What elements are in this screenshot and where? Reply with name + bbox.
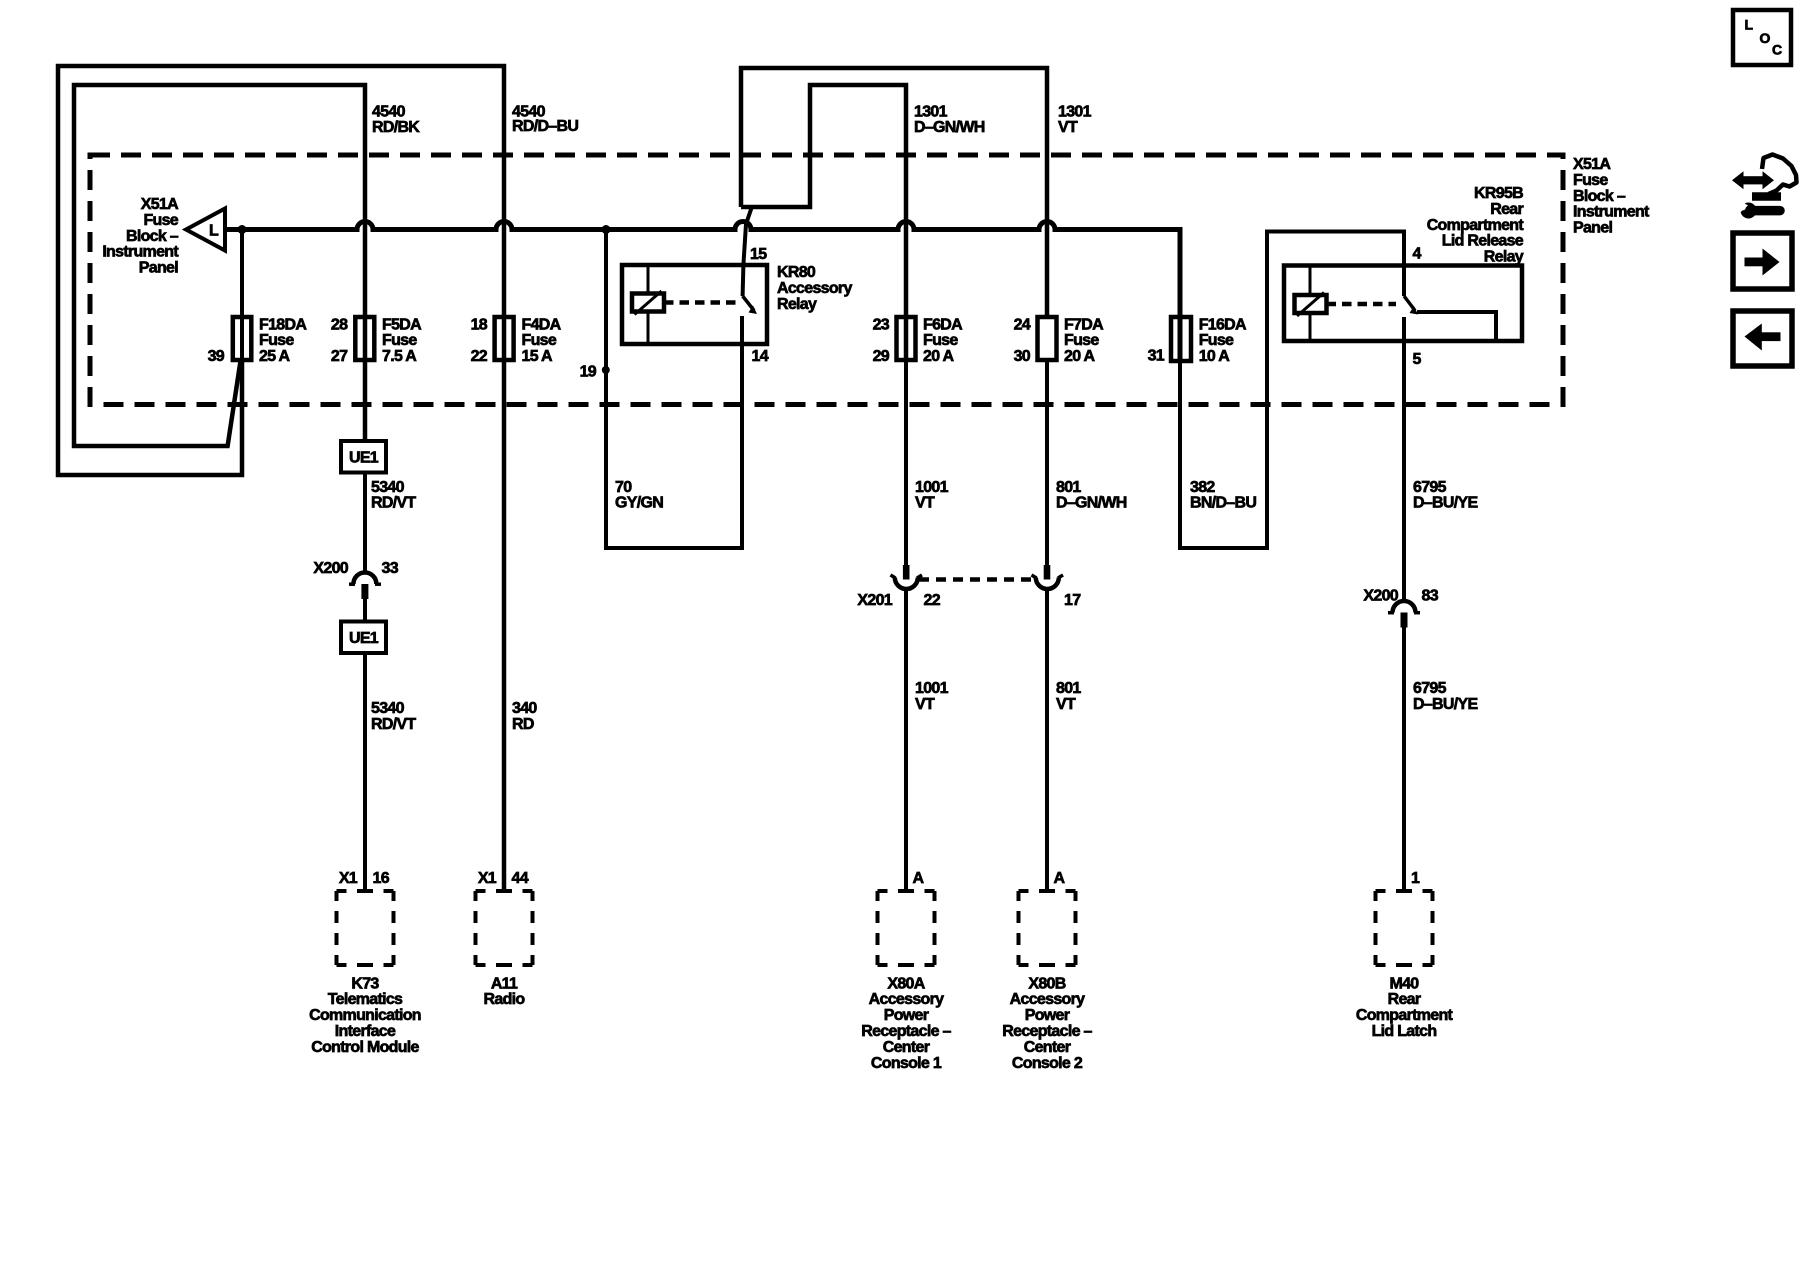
svg-text:X1: X1 [478, 870, 497, 887]
svg-text:KR95B: KR95B [1474, 185, 1523, 202]
icon LOC box [1733, 10, 1791, 65]
svg-text:15 A: 15 A [522, 348, 554, 365]
svg-text:A: A [1054, 870, 1066, 887]
svg-text:Accessory: Accessory [777, 280, 852, 297]
dashed pairing line X201 [919, 577, 1034, 582]
wire 4540 RD/BK inner loop from F18DA pin39 to F5DA [74, 85, 365, 446]
svg-text:L: L [209, 223, 219, 240]
relay KR95B contact to pin 5 [1417, 312, 1496, 341]
svg-text:Center: Center [883, 1039, 930, 1056]
svg-text:28: 28 [331, 316, 348, 333]
svg-text:Fuse: Fuse [143, 212, 178, 229]
svg-text:Compartment: Compartment [1427, 217, 1525, 234]
svg-text:Power: Power [884, 1007, 929, 1024]
label wire 801 VT lower [1056, 680, 1081, 713]
label wire 382 BN/D-BU [1190, 479, 1256, 512]
wire 1301 VT loop from F7DA up and over to KR80 pin 15 junction [741, 68, 1047, 317]
relay KR80 coil pin line [647, 265, 650, 344]
label fuse F7DA [1064, 316, 1104, 365]
label wire 5340 RD/VT upper [371, 479, 416, 512]
svg-text:7.5 A: 7.5 A [382, 348, 417, 365]
fuse F5DA [355, 317, 374, 360]
svg-text:Relay: Relay [1484, 249, 1524, 266]
relay KR95B switch blade [1404, 296, 1418, 315]
svg-text:A: A [913, 870, 925, 887]
svg-text:O: O [1760, 30, 1771, 46]
svg-text:VT: VT [1056, 696, 1076, 713]
wire 6795 D-BU/YE X200 to M40 [1402, 628, 1406, 893]
label wire 1301 VT [1058, 103, 1092, 136]
svg-text:Block –: Block – [126, 228, 179, 245]
svg-text:83: 83 [1422, 587, 1439, 604]
svg-text:Compartment: Compartment [1356, 1007, 1454, 1024]
svg-text:25 A: 25 A [259, 348, 291, 365]
svg-text:Fuse: Fuse [923, 332, 958, 349]
svg-text:33: 33 [382, 560, 399, 577]
svg-text:Receptacle –: Receptacle – [1002, 1023, 1092, 1040]
svg-text:24: 24 [1014, 316, 1031, 333]
fuse F6DA [897, 317, 916, 360]
label wire 1301 D-GN/WH [914, 103, 985, 136]
connector box A11 [476, 891, 533, 965]
svg-text:39: 39 [208, 348, 225, 365]
wire 70 GY/GN from node 19 to KR80 pin 14 [606, 230, 742, 549]
relay KR80 coil [632, 291, 664, 315]
svg-text:UE1: UE1 [349, 450, 379, 467]
label wire 801 D-GN/WH [1056, 479, 1127, 512]
node 19 dot [602, 366, 610, 374]
svg-text:Lid Release: Lid Release [1442, 233, 1524, 250]
svg-text:Instrument: Instrument [102, 244, 179, 261]
svg-text:RD/VT: RD/VT [371, 716, 416, 733]
svg-text:X80A: X80A [887, 975, 925, 992]
svg-text:F4DA: F4DA [522, 316, 562, 333]
wire 1001 VT X201 to X80A [904, 591, 908, 892]
svg-text:Communication: Communication [309, 1007, 421, 1024]
label fuse F18DA [259, 316, 307, 365]
svg-text:Console 1: Console 1 [871, 1055, 942, 1072]
svg-text:Panel: Panel [139, 260, 178, 277]
svg-text:382: 382 [1190, 479, 1215, 496]
icon forward arrow box [1733, 233, 1792, 289]
label KR80 relay [777, 264, 852, 313]
junction dot at node 19 branch [602, 225, 611, 234]
label fuse F5DA [382, 316, 422, 365]
wire UE1 to X200 pin 33 [363, 473, 367, 573]
svg-text:Fuse: Fuse [1199, 332, 1234, 349]
label fuse F4DA [522, 316, 562, 365]
icon back arrow box [1733, 311, 1792, 366]
svg-text:1001: 1001 [915, 680, 949, 697]
label wire 6795 D-BU/YE lower [1413, 680, 1478, 713]
svg-text:X200: X200 [313, 560, 348, 577]
svg-text:Accessory: Accessory [869, 991, 944, 1008]
fuse F4DA [495, 317, 514, 360]
svg-text:Fuse: Fuse [259, 332, 294, 349]
svg-text:6795: 6795 [1413, 680, 1447, 697]
svg-text:10 A: 10 A [1199, 348, 1231, 365]
svg-text:D–BU/YE: D–BU/YE [1413, 495, 1478, 512]
svg-text:16: 16 [373, 870, 390, 887]
svg-text:15: 15 [750, 246, 767, 263]
svg-text:F16DA: F16DA [1199, 316, 1247, 333]
relay KR80 box [622, 265, 767, 344]
svg-text:X200: X200 [1363, 587, 1398, 604]
connector X201 pin 17 [1032, 565, 1064, 589]
terminal tick K73 [357, 889, 373, 893]
terminal tick X80B [1039, 889, 1055, 893]
main bus wire from triangle L to F16DA [225, 222, 1180, 361]
label wire 70 GY/GN [615, 479, 663, 512]
svg-text:Instrument: Instrument [1573, 204, 1650, 221]
svg-text:Rear: Rear [1490, 201, 1523, 218]
wire F18DA top to bus junction [240, 230, 244, 361]
svg-text:F6DA: F6DA [923, 316, 963, 333]
splice UE1 lower [341, 622, 386, 654]
label X51A fuse block left [102, 196, 179, 277]
svg-text:4540: 4540 [372, 103, 406, 120]
svg-text:X1: X1 [339, 870, 358, 887]
svg-text:D–GN/WH: D–GN/WH [1056, 495, 1127, 512]
svg-text:RD/D–BU: RD/D–BU [512, 118, 578, 135]
svg-text:X80B: X80B [1028, 975, 1065, 992]
svg-text:5: 5 [1413, 351, 1422, 368]
wire 1301 D-GN/WH loop from junction to F6DA [741, 85, 906, 360]
label X51A fuse block right [1573, 156, 1650, 237]
svg-text:20 A: 20 A [923, 348, 955, 365]
terminal tick A11 [496, 889, 512, 893]
wire 801 D-GN/WH F7DA to X201 pin 17 [1045, 360, 1049, 565]
svg-text:14: 14 [752, 348, 769, 365]
relay KR95B coil pin line [1309, 266, 1312, 342]
svg-text:UE1: UE1 [349, 630, 379, 647]
wire F5DA to UE1 splice [363, 360, 367, 441]
svg-text:Fuse: Fuse [382, 332, 417, 349]
relay KR95B coil [1295, 293, 1327, 317]
svg-text:22: 22 [924, 592, 941, 609]
wire 382 BN/D-BU from F16DA to KR95B pin 4 [1180, 232, 1404, 549]
svg-text:C: C [1772, 41, 1782, 57]
svg-text:Center: Center [1024, 1039, 1071, 1056]
svg-text:Telematics: Telematics [328, 991, 403, 1008]
wire X200 to second UE1 splice [363, 599, 367, 622]
wire 6795 D-BU/YE KR95B pin 5 to X200 pin 83 [1402, 317, 1406, 600]
wire 801 VT X201 to X80B [1045, 591, 1049, 892]
power feed triangle L [186, 209, 225, 251]
connector box K73 [337, 891, 394, 965]
svg-text:17: 17 [1064, 592, 1081, 609]
icon hook arrow and wrench [1732, 155, 1797, 219]
wire 5340 RD/VT to K73 [363, 653, 367, 892]
relay KR80 switch blade [743, 296, 757, 314]
svg-text:F18DA: F18DA [259, 316, 307, 333]
label X80A receptacle [861, 975, 951, 1072]
svg-text:L: L [1745, 17, 1754, 33]
svg-text:VT: VT [1058, 119, 1078, 136]
svg-text:F7DA: F7DA [1064, 316, 1104, 333]
svg-text:Power: Power [1025, 1007, 1070, 1024]
svg-text:Fuse: Fuse [1573, 172, 1608, 189]
svg-text:19: 19 [580, 364, 597, 381]
svg-text:M40: M40 [1389, 975, 1419, 992]
label wire 5340 RD/VT lower [371, 700, 416, 733]
svg-text:5340: 5340 [371, 479, 405, 496]
connector X200 pin 83 [1388, 601, 1420, 628]
svg-text:44: 44 [512, 870, 529, 887]
terminal tick M40 [1396, 889, 1412, 893]
svg-text:X201: X201 [857, 592, 892, 609]
wire 4540 RD/D-BU outer loop from F18DA pin39 to F4DA and down to A11 radio [58, 66, 504, 892]
label X80B receptacle [1002, 975, 1092, 1072]
connector box M40 [1376, 891, 1433, 965]
fuse F7DA [1038, 317, 1057, 360]
splice UE1 upper [341, 441, 386, 473]
connector box X80B [1019, 891, 1076, 965]
svg-text:801: 801 [1056, 479, 1081, 496]
svg-text:30: 30 [1014, 348, 1031, 365]
svg-text:Block –: Block – [1573, 188, 1626, 205]
svg-text:VT: VT [915, 696, 935, 713]
svg-text:A11: A11 [491, 975, 518, 992]
svg-text:VT: VT [915, 495, 935, 512]
svg-text:70: 70 [615, 479, 632, 496]
svg-text:Control Module: Control Module [311, 1039, 419, 1056]
svg-text:RD/VT: RD/VT [371, 495, 416, 512]
wire to KR80 pin 15 crossing bus [743, 207, 752, 297]
svg-text:K73: K73 [351, 975, 379, 992]
svg-text:D–GN/WH: D–GN/WH [914, 119, 985, 136]
svg-text:27: 27 [331, 348, 348, 365]
label wire 1001 VT upper [915, 479, 949, 512]
svg-text:Accessory: Accessory [1010, 991, 1085, 1008]
fuse F18DA 25A [233, 317, 252, 360]
label fuse F16DA [1199, 316, 1247, 365]
svg-text:KR80: KR80 [777, 264, 816, 281]
connector X200 pin 33 [349, 573, 381, 600]
connector box X80A [878, 891, 935, 965]
svg-text:GY/GN: GY/GN [615, 495, 663, 512]
svg-text:RD/BK: RD/BK [372, 119, 420, 136]
svg-text:29: 29 [873, 348, 890, 365]
svg-text:D–BU/YE: D–BU/YE [1413, 696, 1478, 713]
svg-text:Receptacle –: Receptacle – [861, 1023, 951, 1040]
svg-text:Interface: Interface [335, 1023, 396, 1040]
label wire 1001 VT lower [915, 680, 949, 713]
svg-text:F5DA: F5DA [382, 316, 422, 333]
svg-text:RD: RD [512, 716, 534, 733]
svg-text:22: 22 [471, 348, 488, 365]
label wire 4540 RD/BK [372, 103, 420, 136]
connector X201 pin 22 [891, 565, 923, 589]
svg-text:Lid Latch: Lid Latch [1372, 1023, 1437, 1040]
svg-text:4: 4 [1413, 246, 1422, 263]
label K73 module [309, 975, 421, 1056]
relay KR95B linkage dashed [1327, 302, 1397, 307]
wire 1001 VT F6DA to X201 pin 22 [904, 360, 908, 565]
svg-text:31: 31 [1148, 348, 1165, 365]
fuse block X51A dashed border [90, 155, 1563, 405]
svg-text:BN/D–BU: BN/D–BU [1190, 495, 1256, 512]
relay KR80 linkage dashed [664, 300, 738, 305]
svg-text:18: 18 [471, 316, 488, 333]
junction dot at F18DA branch [238, 225, 247, 234]
svg-text:Relay: Relay [777, 296, 817, 313]
svg-text:Radio: Radio [484, 991, 526, 1008]
svg-text:801: 801 [1056, 680, 1081, 697]
svg-text:1001: 1001 [915, 479, 949, 496]
label KR95B relay [1427, 185, 1525, 266]
label wire 340 RD [512, 700, 537, 733]
label M40 latch [1356, 975, 1454, 1040]
svg-text:6795: 6795 [1413, 479, 1447, 496]
svg-text:20 A: 20 A [1064, 348, 1096, 365]
svg-text:Console 2: Console 2 [1012, 1055, 1083, 1072]
label wire 4540 RD/D-BU [512, 103, 578, 135]
svg-text:Rear: Rear [1388, 991, 1421, 1008]
relay KR95B box [1284, 266, 1522, 342]
svg-text:Fuse: Fuse [522, 332, 557, 349]
terminal tick X80A [898, 889, 914, 893]
label wire 6795 D-BU/YE upper [1413, 479, 1478, 512]
svg-text:Panel: Panel [1573, 220, 1612, 237]
label A11 radio [484, 975, 526, 1008]
svg-text:340: 340 [512, 700, 537, 717]
svg-text:1: 1 [1411, 870, 1420, 887]
svg-text:Fuse: Fuse [1064, 332, 1099, 349]
fuse F16DA 10A [1171, 317, 1191, 361]
svg-text:X51A: X51A [1573, 156, 1611, 173]
svg-text:23: 23 [873, 316, 890, 333]
label fuse F6DA [923, 316, 963, 365]
svg-text:1301: 1301 [1058, 103, 1092, 120]
svg-text:X51A: X51A [141, 196, 179, 213]
svg-text:5340: 5340 [371, 700, 405, 717]
svg-text:1301: 1301 [914, 103, 948, 120]
